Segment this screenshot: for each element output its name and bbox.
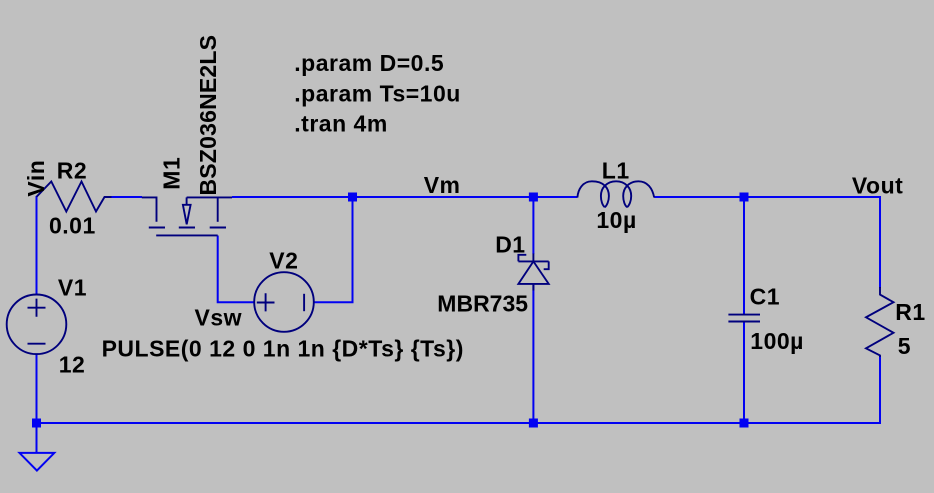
voltage source V1 — [7, 295, 67, 355]
svg-text:MBR735: MBR735 — [437, 290, 528, 316]
svg-text:D1: D1 — [495, 232, 525, 258]
svg-text:0.01: 0.01 — [49, 213, 96, 239]
value 12 — [59, 351, 86, 377]
junction Vm node — [348, 193, 357, 202]
node Vm — [424, 172, 461, 198]
label R1 — [895, 299, 925, 325]
wire V2 minus up to Vm node — [314, 197, 352, 302]
wire D1 column lower — [532, 285, 534, 424]
inductor L1 — [577, 181, 654, 207]
wire top rail left (Vin to M1) — [104, 196, 142, 198]
wire bottom rail — [37, 422, 881, 424]
node Vout — [852, 173, 903, 199]
ground — [20, 423, 55, 471]
svg-text:BSZ036NE2LS: BSZ036NE2LS — [195, 35, 221, 196]
label C1 — [750, 284, 780, 310]
directive .tran — [294, 111, 387, 137]
svg-text:V1: V1 — [58, 275, 87, 301]
resistor R2 — [37, 182, 112, 212]
wire C1 column lower — [743, 322, 745, 423]
svg-text:5: 5 — [898, 333, 911, 359]
diode D1 (schottky) — [518, 254, 548, 291]
svg-text:.param Ts=10u: .param Ts=10u — [294, 81, 461, 107]
node Vsw — [195, 304, 243, 330]
junction C1 bottom — [740, 419, 749, 428]
label R2 — [57, 157, 87, 183]
wire M1 gate to V2 plus — [218, 236, 255, 303]
value 0.01 — [49, 213, 96, 239]
wire right rail upper (Vout corner to R1) — [879, 196, 881, 288]
wire left rail lower (V1 to bottom rail) — [36, 354, 38, 424]
svg-text:10µ: 10µ — [596, 207, 636, 233]
svg-text:PULSE(0 12 0 1n 1n {D*Ts} {Ts}: PULSE(0 12 0 1n 1n {D*Ts} {Ts}) — [102, 336, 464, 362]
value 10u — [596, 207, 636, 233]
svg-text:Vm: Vm — [424, 172, 461, 198]
svg-text:.param D=0.5: .param D=0.5 — [294, 50, 444, 76]
svg-text:R2: R2 — [57, 157, 87, 183]
wire right rail lower (R1 to bottom) — [879, 356, 881, 424]
value PULSE — [102, 336, 464, 362]
junction D1 bottom — [529, 419, 538, 428]
svg-text:Vin: Vin — [23, 160, 49, 197]
junction C1 top — [740, 193, 749, 202]
capacitor C1 — [728, 315, 760, 322]
value 100u — [750, 328, 804, 354]
junction ground left — [32, 419, 41, 428]
voltage source V2 — [254, 272, 314, 332]
svg-text:12: 12 — [59, 351, 86, 377]
wire top rail mid (M1 to L1) — [232, 196, 577, 198]
directive .param D — [294, 50, 444, 76]
svg-text:V2: V2 — [269, 248, 298, 274]
transistor Q M1 (nmos) — [142, 197, 232, 235]
junction D1 top — [529, 193, 538, 202]
svg-text:R1: R1 — [895, 299, 925, 325]
svg-text:C1: C1 — [750, 284, 780, 310]
label D1 — [495, 232, 525, 258]
svg-text:.tran 4m: .tran 4m — [294, 111, 387, 137]
wire D1 column upper — [532, 197, 534, 254]
wire C1 column upper — [743, 197, 745, 314]
value 5 — [898, 333, 911, 359]
svg-text:L1: L1 — [602, 158, 630, 184]
svg-text:M1: M1 — [158, 157, 184, 190]
value MBR735 — [437, 290, 528, 316]
label V2 — [269, 248, 298, 274]
node Vin — [23, 160, 49, 197]
label V1 — [58, 275, 87, 301]
svg-text:Vout: Vout — [852, 173, 903, 199]
value BSZ036NE2LS — [195, 35, 221, 196]
svg-text:Vsw: Vsw — [195, 304, 243, 330]
wire left rail upper (Vin corner to V1) — [36, 196, 38, 295]
resistor R1 — [866, 287, 894, 357]
svg-text:100µ: 100µ — [750, 328, 804, 354]
label M1 — [158, 157, 184, 190]
directive .param Ts — [294, 81, 461, 107]
label L1 — [602, 158, 630, 184]
wire top rail right (L1 to Vout corner) — [654, 196, 880, 198]
